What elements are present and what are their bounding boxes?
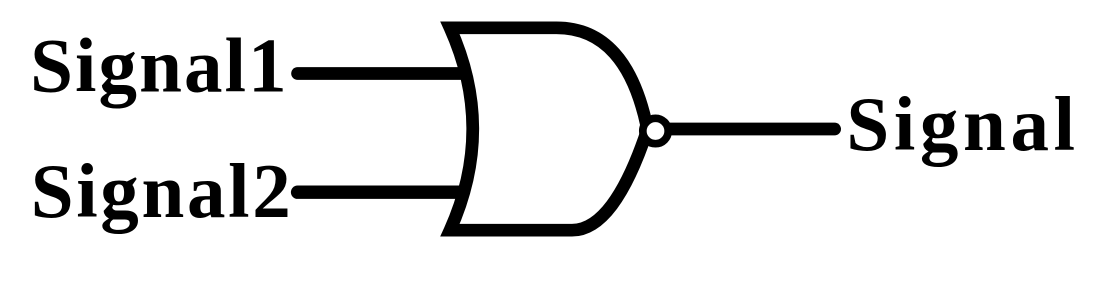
wire input 1 (Signal1 to NOR gate) [298, 67, 470, 80]
svg-text:Signal: Signal [846, 81, 1075, 167]
NOR gate body (OR shape) [450, 28, 648, 230]
wire output (bubble to Signal) [660, 123, 835, 136]
svg-text:Signal1: Signal1 [30, 23, 287, 109]
wire input 2 (Signal2 to NOR gate) [298, 185, 470, 198]
inversion bubble at NOR output [643, 118, 668, 143]
svg-text:Signal2: Signal2 [31, 148, 291, 234]
